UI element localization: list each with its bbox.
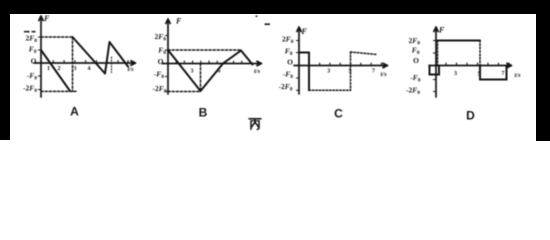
B curve descending (168, 50, 201, 91)
A dashed vertical t=2 (72, 37, 74, 91)
B dashed F0 horizontal (168, 49, 240, 51)
svg-text:O: O (413, 56, 419, 65)
D big rectangle top (438, 40, 481, 42)
B curve ascending (201, 51, 242, 92)
svg-text:4: 4 (88, 66, 91, 72)
C step-down vertical (308, 53, 310, 91)
svg-text:3: 3 (454, 71, 457, 77)
scan frame: right black bar (536, 0, 550, 141)
scan artifact dashes top-left (24, 31, 36, 33)
svg-text:6: 6 (218, 69, 221, 75)
svg-text:A: A (70, 105, 79, 119)
svg-text:-F0: -F0 (27, 71, 38, 82)
B curve final descending (241, 51, 253, 65)
C dotted F0 horizontal right (351, 52, 378, 55)
svg-text:-F0: -F0 (410, 73, 421, 84)
svg-text:D: D (466, 109, 475, 123)
D small step box below origin (430, 66, 440, 75)
svg-text:3: 3 (74, 66, 77, 72)
svg-text:2F0: 2F0 (25, 34, 37, 45)
svg-text:-2F0: -2F0 (278, 82, 292, 93)
svg-text:F0: F0 (285, 47, 293, 58)
B y-axis (166, 19, 170, 94)
A x-axis (34, 61, 136, 65)
svg-text:5: 5 (478, 72, 481, 78)
svg-text:3: 3 (327, 69, 330, 75)
D y ticks (433, 41, 436, 92)
svg-text:-2F0: -2F0 (406, 86, 420, 97)
scan artifact dot (256, 15, 258, 17)
svg-text:7: 7 (502, 71, 505, 77)
svg-text:-F0: -F0 (154, 70, 165, 81)
svg-text:7: 7 (372, 69, 375, 75)
A curve jump up (105, 42, 110, 74)
svg-text:t/s: t/s (128, 66, 135, 73)
svg-text:-2F0: -2F0 (152, 84, 166, 95)
D right step at -F0 (480, 66, 507, 80)
A curve segment 1 (41, 50, 70, 91)
A x ticks (53, 61, 128, 63)
B dashed vertical at minimum (200, 64, 202, 92)
svg-text:F0: F0 (29, 45, 37, 56)
svg-text:O: O (158, 57, 164, 66)
svg-text:F0: F0 (412, 46, 420, 57)
svg-text:2: 2 (58, 66, 61, 72)
A y ticks (38, 37, 41, 90)
A curve segment 2 (73, 37, 106, 74)
C dotted -2F0 horizontal (309, 89, 351, 91)
svg-text:1: 1 (47, 66, 50, 72)
D big rectangle dotted right edge (479, 41, 481, 66)
A small dotted vertical near t=6 (111, 57, 113, 73)
svg-text:F: F (301, 27, 308, 36)
C dotted vertical t=5 (350, 52, 352, 90)
C step at F0 (299, 52, 309, 54)
svg-text:-F0: -F0 (283, 70, 294, 81)
svg-text:t/s: t/s (515, 72, 522, 79)
B x ticks (176, 61, 250, 63)
svg-text:B: B (199, 106, 208, 120)
A dashed -2F0 horizontal (41, 90, 76, 92)
svg-text:2F0: 2F0 (282, 35, 294, 46)
svg-text:O: O (287, 58, 293, 67)
svg-text:O: O (31, 57, 37, 66)
B x-axis (162, 61, 262, 65)
D x ticks (446, 63, 509, 65)
svg-text:t/s: t/s (254, 68, 261, 75)
B y ticks (165, 36, 168, 92)
C x-axis (294, 63, 388, 67)
C y-axis (297, 27, 301, 94)
B dashed -2F0 horizontal (168, 91, 201, 93)
D x-axis (429, 63, 512, 67)
A text labels (23, 14, 134, 119)
A dashed 2F0 horizontal (41, 36, 73, 38)
D big rectangle dotted left edge (437, 41, 439, 66)
svg-text:t/s: t/s (381, 71, 388, 78)
svg-text:2F0: 2F0 (154, 32, 166, 43)
D y-axis (434, 27, 438, 97)
scan frame: left black bar (0, 0, 10, 140)
svg-text:3: 3 (191, 69, 194, 75)
scan frame: top black strip (0, 0, 550, 14)
C x ticks (309, 63, 381, 65)
svg-text:F0: F0 (158, 46, 166, 57)
svg-text:F: F (438, 26, 445, 35)
small stray dash between B and C (265, 23, 271, 25)
svg-text:C: C (334, 107, 343, 121)
svg-text:F: F (175, 17, 182, 26)
A curve segment 3 (110, 42, 129, 67)
A y-axis (39, 16, 43, 97)
svg-text:5: 5 (349, 69, 352, 75)
caption character bing (drawn strokes) (249, 119, 261, 130)
svg-text:-2F0: -2F0 (23, 84, 37, 95)
C y ticks (296, 41, 299, 91)
svg-text:F: F (43, 14, 50, 23)
